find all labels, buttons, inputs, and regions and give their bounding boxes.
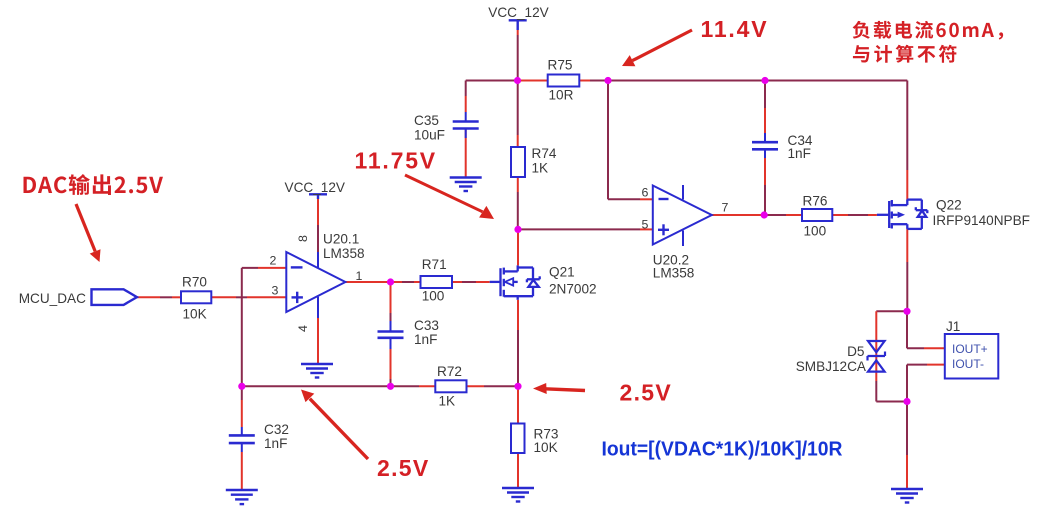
- svg-text:2.5V: 2.5V: [620, 380, 673, 406]
- svg-text:1K: 1K: [439, 394, 456, 409]
- svg-text:SMBJ12CA: SMBJ12CA: [796, 359, 867, 374]
- svg-text:8: 8: [296, 235, 310, 242]
- svg-text:6: 6: [642, 186, 649, 200]
- svg-text:100: 100: [804, 224, 827, 239]
- svg-text:Q21: Q21: [549, 265, 575, 280]
- svg-text:R72: R72: [437, 364, 462, 379]
- svg-text:IRFP9140NPBF: IRFP9140NPBF: [933, 213, 1030, 228]
- svg-text:IOUT+: IOUT+: [952, 342, 988, 356]
- svg-text:C32: C32: [264, 422, 289, 437]
- svg-text:10R: 10R: [549, 88, 574, 103]
- svg-text:3: 3: [272, 284, 279, 298]
- svg-text:10K: 10K: [183, 307, 207, 322]
- svg-text:C35: C35: [414, 113, 439, 128]
- svg-text:11.4V: 11.4V: [701, 16, 769, 42]
- svg-text:4: 4: [296, 325, 310, 332]
- svg-text:R70: R70: [182, 275, 207, 290]
- svg-text:7: 7: [722, 201, 729, 215]
- svg-text:5: 5: [642, 218, 649, 232]
- svg-text:LM358: LM358: [653, 266, 695, 281]
- svg-text:1nF: 1nF: [264, 436, 287, 451]
- svg-text:J1: J1: [946, 319, 960, 334]
- svg-text:100: 100: [422, 289, 445, 304]
- svg-text:1: 1: [356, 269, 363, 283]
- svg-text:R75: R75: [548, 58, 573, 73]
- svg-text:1nF: 1nF: [788, 146, 811, 161]
- svg-text:R76: R76: [803, 194, 828, 209]
- svg-text:1nF: 1nF: [414, 332, 437, 347]
- svg-text:U20.1: U20.1: [323, 232, 359, 247]
- svg-text:R74: R74: [532, 146, 557, 161]
- svg-text:R71: R71: [422, 257, 447, 272]
- svg-text:10uF: 10uF: [414, 128, 445, 143]
- svg-text:10K: 10K: [534, 440, 558, 455]
- svg-text:IOUT-: IOUT-: [952, 357, 984, 371]
- svg-text:2N7002: 2N7002: [549, 282, 597, 297]
- svg-text:1K: 1K: [532, 161, 549, 176]
- svg-text:C33: C33: [414, 318, 439, 333]
- svg-text:Q22: Q22: [936, 198, 962, 213]
- svg-text:LM358: LM358: [323, 246, 365, 261]
- svg-text:MCU_DAC: MCU_DAC: [19, 291, 86, 306]
- svg-text:2: 2: [270, 254, 277, 268]
- svg-text:Iout=[(VDAC*1K)/10K]/10R: Iout=[(VDAC*1K)/10K]/10R: [602, 439, 844, 461]
- svg-text:11.75V: 11.75V: [355, 148, 437, 174]
- svg-text:VCC_12V: VCC_12V: [488, 5, 548, 20]
- svg-text:D5: D5: [847, 344, 864, 359]
- svg-text:VCC_12V: VCC_12V: [285, 180, 345, 195]
- svg-text:2.5V: 2.5V: [377, 455, 430, 481]
